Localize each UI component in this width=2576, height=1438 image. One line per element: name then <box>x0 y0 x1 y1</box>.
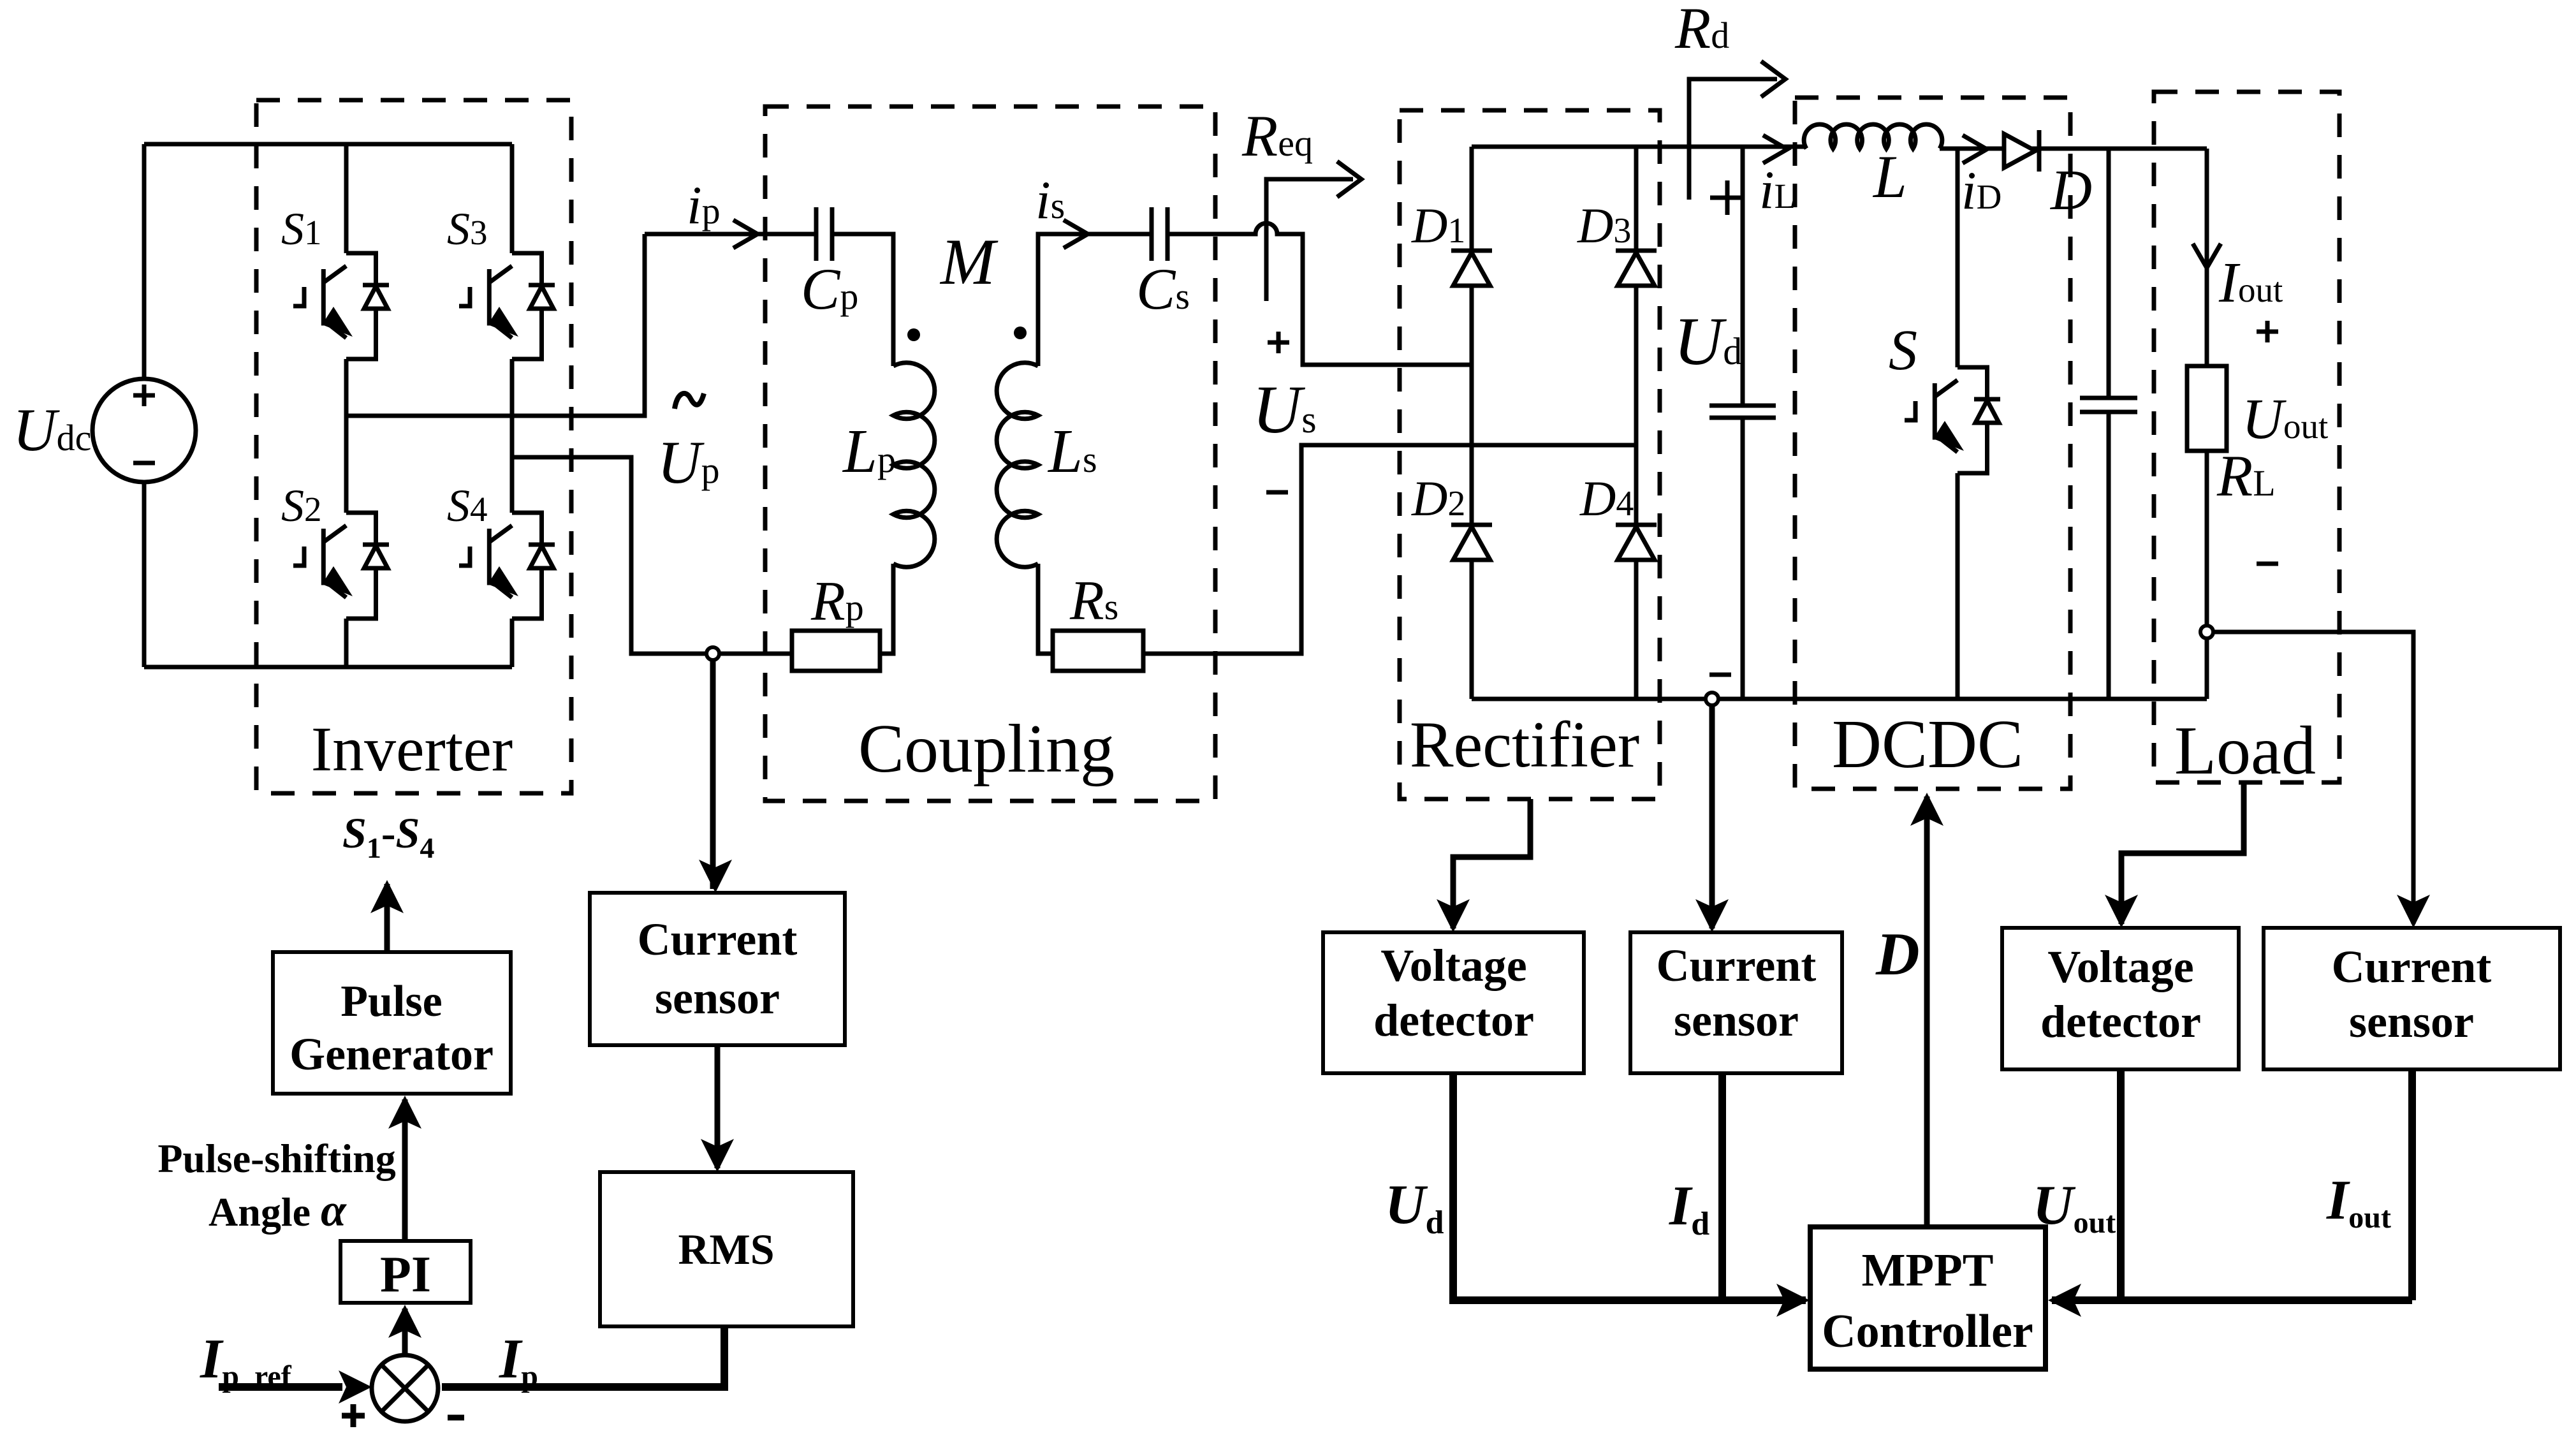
arrow into summing junction <box>405 1370 438 1404</box>
wire: Cp to Lp top <box>832 234 893 366</box>
inverter dashed box <box>256 100 571 793</box>
svg-text:Current: Current <box>638 914 798 965</box>
svg-text:PI: PI <box>380 1247 431 1303</box>
wire: rectifier left leg <box>1470 147 1474 699</box>
arrow ip <box>733 220 757 248</box>
box PI <box>340 1241 471 1303</box>
diode D (buck) <box>2004 130 2039 172</box>
arrow D into DCDC <box>1910 793 1943 826</box>
arrow is <box>1064 220 1088 248</box>
wire: inverter output lower (to Rp) <box>512 457 792 654</box>
wire: bottom rail <box>144 665 512 670</box>
box voltage detector 1 <box>1323 932 1584 1073</box>
svg-text:D: D <box>2049 159 2092 222</box>
wire: S1 leg top <box>344 144 349 253</box>
svg-text:sensor: sensor <box>2349 996 2474 1047</box>
wire: source top to top rail <box>142 144 147 379</box>
svg-text:Inverter: Inverter <box>311 714 513 784</box>
arrow into voltage detector 1 <box>1437 899 1470 932</box>
inductor Lp <box>893 363 935 568</box>
svg-text:L: L <box>1872 143 1907 210</box>
arrow into Pulse Generator <box>388 1096 421 1129</box>
wire: Ls bottom to Rs <box>1038 564 1053 654</box>
svg-text:DCDC: DCDC <box>1832 707 2023 782</box>
wire: Ls top <box>1038 234 1152 366</box>
capacitor output wire top <box>2107 149 2111 398</box>
pointer Rd <box>1689 79 1777 200</box>
arrow iL <box>1763 135 1787 163</box>
svg-text:MPPT: MPPT <box>1862 1244 1994 1296</box>
wire: S3 leg top <box>510 144 515 253</box>
arrow into current sensor left <box>699 860 732 893</box>
wire: PI to Pulse Generator <box>402 1099 408 1241</box>
transistor S2 <box>293 513 389 619</box>
wire: RMS output to summing junction <box>442 1326 724 1387</box>
arrow into current sensor 2 <box>2397 895 2430 928</box>
transistor S <box>1905 367 2000 473</box>
label minus sum <box>448 1415 464 1421</box>
label plus Us <box>1268 332 1289 353</box>
svg-text:sensor: sensor <box>655 972 780 1023</box>
wire: top rail <box>144 142 512 147</box>
arrow into current sensor mid <box>1695 899 1729 932</box>
node: load output junction <box>2200 626 2213 638</box>
capacitor output wire bottom <box>2107 412 2111 699</box>
wire: bottom rail <box>1472 697 2207 701</box>
box MPPT controller <box>1810 1227 2045 1369</box>
wire: ip wire into Cp <box>645 232 816 237</box>
wire: S1-S2 leg middle <box>344 359 349 513</box>
wire: S branch bottom <box>1956 473 1960 699</box>
capacitor output <box>2080 398 2137 412</box>
wire: S4 leg bottom <box>510 619 515 667</box>
wire: D output MPPT to DCDC <box>1924 796 1930 1227</box>
svg-text:Current: Current <box>1657 940 1817 991</box>
wire: summing junction to PI <box>402 1309 408 1355</box>
capacitor Ud <box>1709 406 1776 418</box>
node: Up tap junction <box>706 647 719 660</box>
inductor Ls <box>997 363 1038 568</box>
voltage source Udc <box>92 379 196 482</box>
transistor S3 <box>459 253 555 359</box>
wire: load node to Iout feed <box>2207 632 2413 924</box>
label plus sum <box>342 1404 365 1427</box>
svg-text:RMS: RMS <box>678 1225 774 1273</box>
wire: Ud to MPPT <box>1453 1073 1806 1300</box>
wire: Uout to MPPT <box>2117 1069 2125 1300</box>
capacitor Ud wire top <box>1741 147 1745 406</box>
wire: S branch top <box>1956 149 1960 367</box>
MAIN <box>92 144 512 667</box>
label minus Ud <box>1709 673 1731 677</box>
inductor L <box>1804 124 1942 149</box>
label plus Ud <box>1710 180 1745 215</box>
wire: inverter output upper (to ip) <box>346 234 645 416</box>
svg-text:Voltage: Voltage <box>1380 940 1526 991</box>
box RMS <box>600 1172 853 1326</box>
wire: tap Up node to current sensor <box>710 660 716 889</box>
svg-text:M: M <box>939 226 999 298</box>
svg-text:Coupling: Coupling <box>858 711 1115 787</box>
coupling dashed box <box>765 106 1215 801</box>
svg-text:Angle α: Angle α <box>209 1185 347 1236</box>
arrow iD <box>1963 135 1987 163</box>
svg-text:Pulse-shifting: Pulse-shifting <box>157 1136 395 1181</box>
wire: Ip_ref input <box>219 1383 342 1391</box>
arrow Iout <box>2193 244 2221 268</box>
wire: Iout to MPPT <box>2052 1069 2412 1300</box>
pointer Req <box>1266 179 1353 301</box>
wire: load tap to voltage detector <box>2121 782 2244 924</box>
wire: Lp bottom to Rp <box>880 564 893 654</box>
svg-text:detector: detector <box>1373 995 1534 1046</box>
svg-text:D: D <box>1875 920 1920 988</box>
dcdc dashed box <box>1795 98 2070 789</box>
dot: Lp polarity <box>907 328 920 341</box>
diode D2 <box>1451 525 1492 560</box>
svg-text:detector: detector <box>2040 996 2201 1047</box>
box voltage detector 2 <box>2002 928 2239 1069</box>
wire: current sensor to RMS <box>715 1045 721 1168</box>
svg-text:Load: Load <box>2174 713 2316 789</box>
svg-text:sensor: sensor <box>1674 995 1799 1046</box>
svg-text:Current: Current <box>2332 941 2492 992</box>
wire: S3-S4 leg middle <box>510 359 515 513</box>
resistor RL <box>2187 366 2227 451</box>
summing junction <box>372 1355 438 1421</box>
label ~ <box>675 393 704 409</box>
box Pulse Generator <box>273 952 511 1094</box>
wire: rectifier node to current sensor <box>1709 705 1715 928</box>
diode D4 <box>1616 525 1657 560</box>
resistor Rs <box>1053 631 1143 671</box>
wire: L to DCDC rail <box>1940 147 2207 151</box>
wire: rectifier tap to voltage detector <box>1453 799 1530 928</box>
wire: Pulse Generator to inverter <box>384 884 390 952</box>
load dashed box <box>2154 92 2339 782</box>
svg-text:S: S <box>1889 319 1917 382</box>
diode D3 <box>1616 251 1657 286</box>
arrow into PI <box>388 1305 421 1338</box>
label minus Us <box>1266 490 1288 495</box>
dot: Ls polarity <box>1014 326 1027 339</box>
wire: Cs to hump to Us corner <box>1167 223 1472 365</box>
wire: S2 leg bottom <box>344 619 349 667</box>
label plus load <box>2257 321 2278 342</box>
svg-text:Pulse: Pulse <box>340 977 442 1026</box>
box current sensor mid <box>1630 932 1842 1073</box>
arrow Uout Iout into MPPT <box>2048 1284 2081 1317</box>
wire: RL bottom to node <box>2205 451 2209 699</box>
arrow into RMS <box>701 1139 734 1172</box>
wire: source bottom to bottom rail <box>142 482 147 667</box>
wire: Id to MPPT <box>1718 1073 1726 1300</box>
box current sensor left <box>590 893 845 1045</box>
wire: Rs to Us minus corner <box>1143 445 1636 654</box>
wire: rectifier top rail to L <box>1472 145 1806 149</box>
transistor S4 <box>459 513 555 619</box>
node: bottom rail junction <box>1706 693 1718 705</box>
svg-text:Controller: Controller <box>1822 1305 2033 1358</box>
capacitor Cs <box>1152 207 1167 261</box>
arrow to inverter S1-S4 <box>370 880 404 913</box>
svg-text:Generator: Generator <box>289 1029 494 1080</box>
arrow into voltage detector 2 <box>2105 895 2138 928</box>
transistor S1 <box>293 253 389 359</box>
box current sensor 2 <box>2264 928 2560 1069</box>
resistor Rp <box>792 631 880 671</box>
capacitor Ud wire bottom <box>1741 418 1745 699</box>
capacitor Cp <box>816 207 832 261</box>
rectifier dashed box <box>1400 110 1660 799</box>
label minus load <box>2257 562 2278 566</box>
svg-text:Rectifier: Rectifier <box>1410 708 1639 781</box>
arrow Ip_ref <box>339 1370 372 1404</box>
wire: Iout branch <box>2205 149 2209 366</box>
svg-text:Voltage: Voltage <box>2047 941 2193 992</box>
diode D1 <box>1451 251 1492 286</box>
wire: rectifier right leg <box>1634 147 1639 699</box>
arrow Ud Id into MPPT <box>1776 1284 1810 1317</box>
